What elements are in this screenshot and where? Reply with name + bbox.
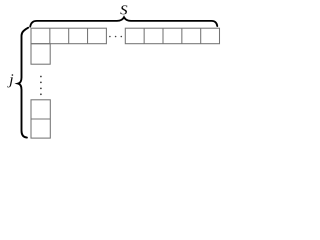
- divider: [31, 118, 50, 120]
- horizontal cdots: [109, 36, 122, 38]
- overbrace s (top horizontal brace): [30, 17, 217, 26]
- divider 1: [143, 28, 145, 44]
- divider 2: [162, 28, 164, 44]
- left column row2 box: [31, 44, 50, 64]
- left brace j (vertical brace): [18, 28, 28, 138]
- divider 4: [200, 28, 202, 44]
- divider 3: [87, 28, 89, 44]
- top row right group: 5 boxes: [125, 28, 219, 44]
- label s: [120, 5, 127, 14]
- divider 3: [181, 28, 183, 44]
- top row left group: 4 boxes: [31, 28, 106, 44]
- label j: [7, 74, 13, 87]
- vertical vdots: [40, 76, 42, 96]
- divider 2: [68, 28, 70, 44]
- divider 1: [49, 28, 51, 44]
- left column bottom two boxes: [31, 100, 50, 138]
